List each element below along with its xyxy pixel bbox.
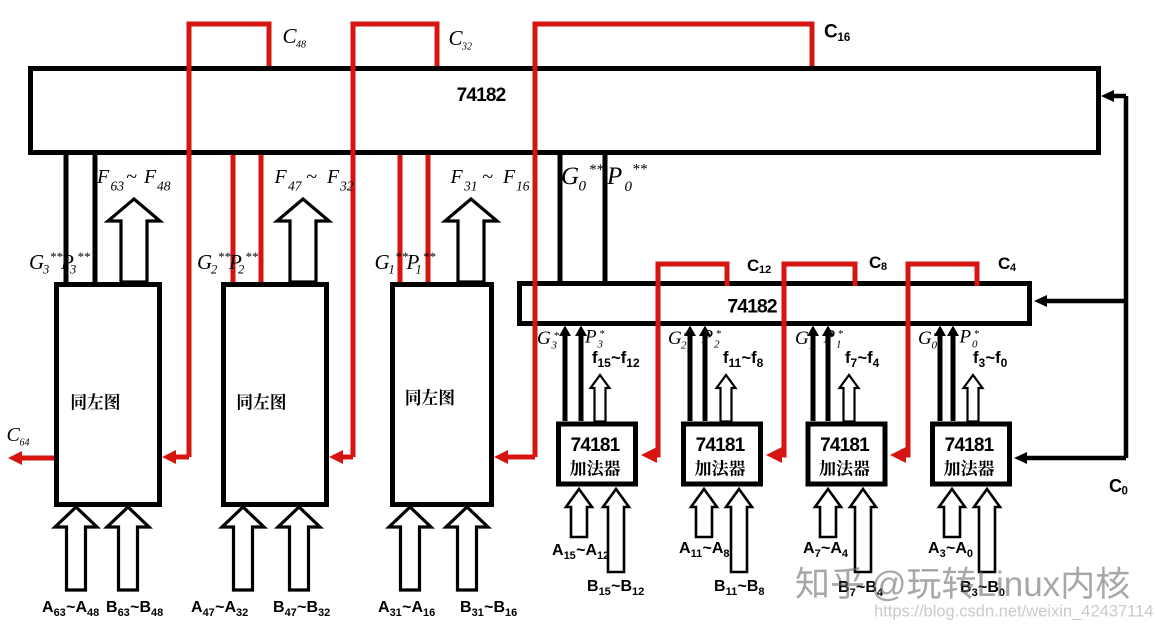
svg-text:Linux: Linux [977,565,1061,604]
wire G/P output of 74181 #3 [826,334,831,421]
input hollow arrow (slice 2) [278,507,320,590]
wire C48 into box1 with arrowhead [172,455,189,460]
wire C32 red loop [353,24,437,457]
block: 16-bit slice 2 (same as left figure) [224,285,327,505]
svg-text:P3*: P3* [584,327,605,351]
adder 74181 #2 [684,424,761,484]
wire G/P output of 74181 #1 [563,334,568,421]
input hollow arrow A (74181 #1) [566,489,592,537]
wire P1** red [426,153,431,282]
wire C16 vertical crossing second 74182 [533,281,538,330]
svg-text:74182: 74182 [727,296,777,318]
svg-text:74181: 74181 [945,435,995,456]
input hollow arrow (slice 2) [222,507,264,590]
adder 74181 #3 [808,424,885,484]
wire C4 arrowhead into 74181 [890,447,906,463]
wire C16 vertical crossing 74182 [533,66,538,155]
svg-text:https://blog.csdn.net/weixin_4: https://blog.csdn.net/weixin_42437114 [874,603,1153,621]
block: 16-bit slice 3 (same as left figure) [393,285,492,505]
F output hollow arrow of slice 1 [108,199,160,282]
wire C32 vertical crossing 74182 [351,66,356,155]
input hollow arrow (slice 3) [389,507,431,590]
wire P0** [603,153,608,281]
input hollow arrow A (74181 #4) [939,489,965,537]
wire C12 red loop [654,264,727,455]
wire C0 vertical [1124,96,1129,458]
wire C16 red [535,24,812,457]
svg-text:G3*: G3* [537,328,560,352]
adder 74181 #4 [933,424,1010,484]
svg-text:G1*: G1* [795,328,816,352]
watermark zhihu [796,567,827,599]
input hollow arrow B (74181 #1) [603,489,629,572]
svg-text:G0*: G0* [918,328,939,352]
f output hollow arrow of 74181 #2 [717,375,736,422]
wire C12 arrowhead into 74181 [641,447,657,463]
svg-text:74181: 74181 [696,435,746,456]
svg-text:P2*: P2* [701,327,722,351]
wire P3** [93,153,98,282]
block: 16-bit slice 1 (same as left figure) [57,285,160,505]
wire C4 red loop [903,264,977,455]
wire G2** red [231,153,236,282]
wire C0 into top 74182 [1112,94,1126,99]
svg-text:G2*: G2* [668,328,689,352]
f output hollow arrow of 74181 #3 [840,375,859,422]
f output hollow arrow of 74181 #1 [591,375,610,422]
input hollow arrow (slice 3) [446,507,488,590]
carry lookahead unit 74182 (top level) [31,69,1099,153]
svg-text:74181: 74181 [571,435,621,456]
wire C8 arrowhead into 74181 [766,447,782,463]
wire C48 vertical crossing 74182 [187,66,192,155]
wire G1** red [398,153,403,282]
input hollow arrow B (74181 #3) [850,489,876,572]
wire G/P output of 74181 #4 [938,334,943,421]
input hollow arrow (slice 1) [55,507,97,590]
svg-text:P0*: P0* [959,327,980,351]
wire C32 into box2 with arrowhead [339,455,353,460]
wire G/P output of 74181 #2 [688,334,693,421]
wire C16 into box3 with arrowhead [504,455,535,460]
F output hollow arrow of slice 3 [445,199,497,282]
adder 74181 #1 [559,424,636,484]
wire G/P output of 74181 #3 [811,334,816,421]
input hollow arrow B (74181 #2) [726,489,752,572]
input hollow arrow A (74181 #3) [815,489,841,537]
wire G/P output of 74181 #4 [951,334,956,421]
wire G/P output of 74181 #1 [579,334,584,421]
carry lookahead unit 74182 (second level) [520,284,1030,324]
svg-text:74181: 74181 [820,435,870,456]
wire C64 output red arrow [20,456,56,461]
wire G3** [64,153,69,282]
svg-text:74182: 74182 [457,85,506,106]
input hollow arrow (slice 1) [107,507,149,590]
F output hollow arrow of slice 2 [277,199,329,282]
f output hollow arrow of 74181 #4 [964,375,983,422]
svg-text:P1*: P1* [823,327,844,351]
wire P2** red [259,153,264,282]
input hollow arrow B (74181 #4) [974,489,1000,572]
input hollow arrow A (74181 #2) [691,489,717,537]
wire C48 red loop [189,24,269,457]
svg-text:@: @ [871,565,907,604]
wire G0** [558,153,563,281]
wire C0 into second 74182 [1045,299,1126,304]
wire C0 into 74181 #4 [1025,456,1126,461]
wire G/P output of 74181 #2 [703,334,708,421]
wire C8 red loop [779,264,855,455]
